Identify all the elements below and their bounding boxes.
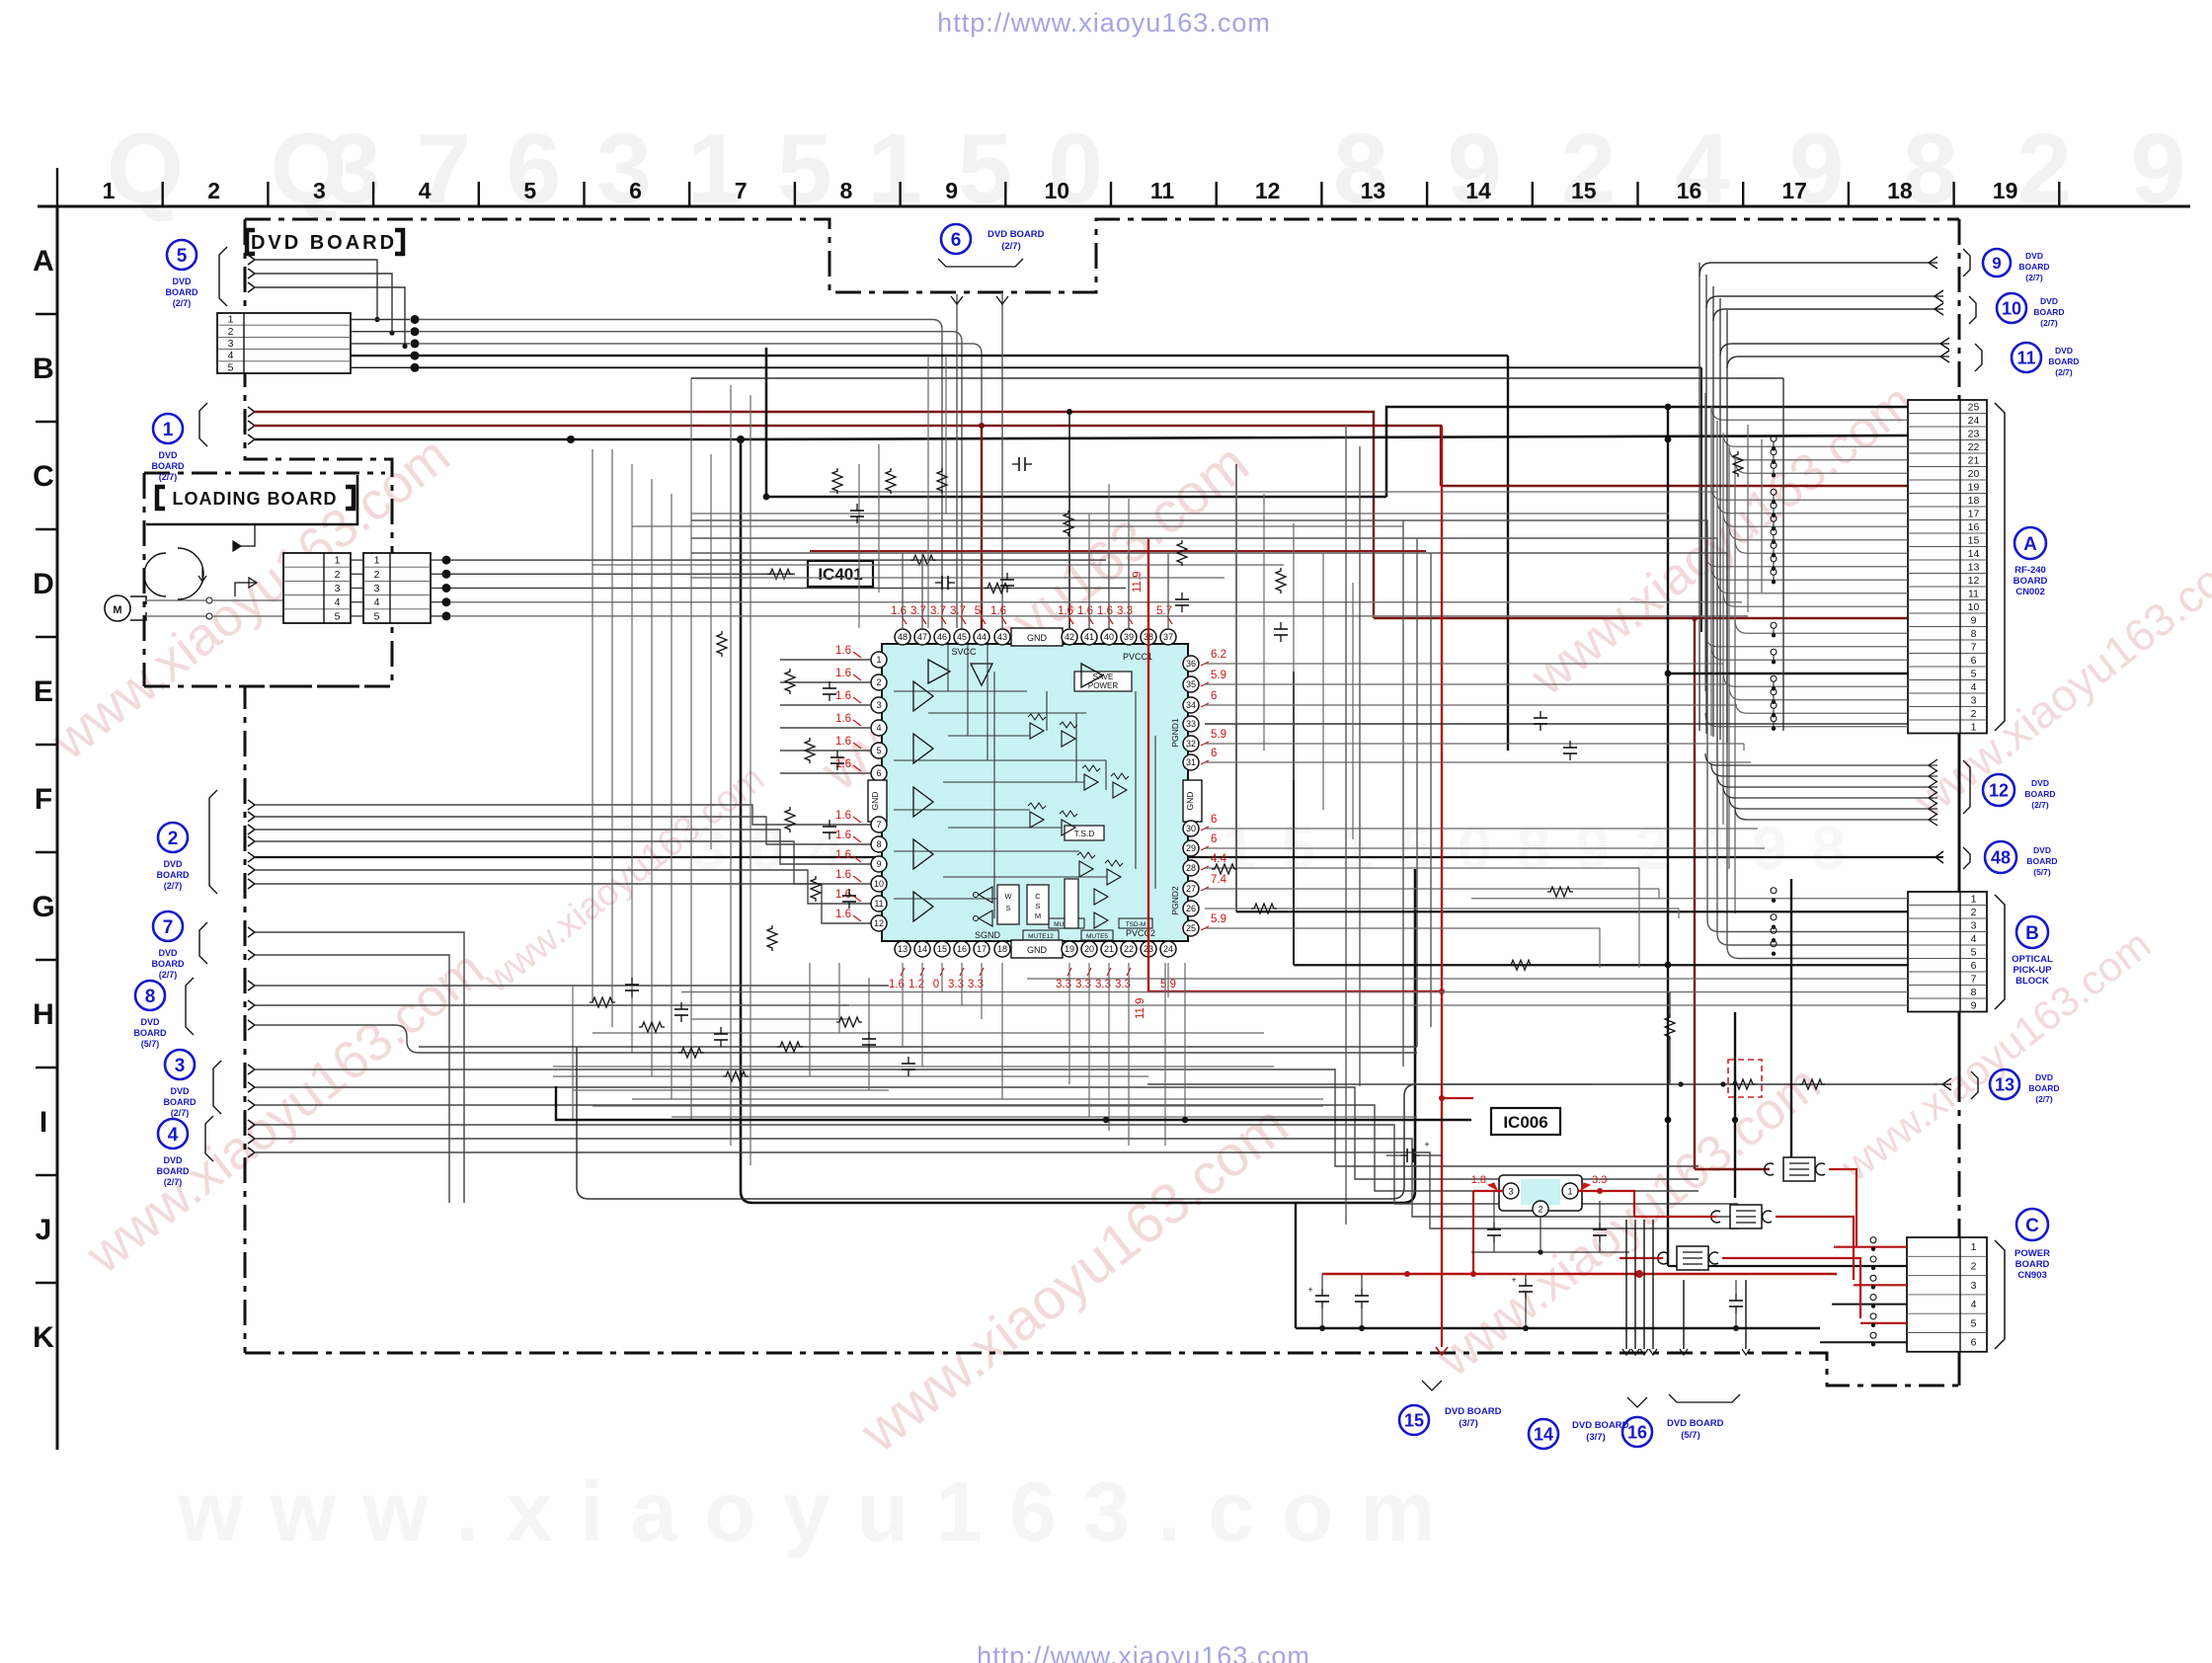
svg-text:BOARD: BOARD (2026, 856, 2057, 866)
svg-text:w w w . x i a o y u 1 6 3 . c: w w w . x i a o y u 1 6 3 . c o m (177, 1465, 1437, 1559)
svg-text:(3/7): (3/7) (1586, 1432, 1606, 1443)
svg-text:3: 3 (1971, 919, 1977, 931)
svg-text:1.6: 1.6 (835, 668, 851, 679)
gray mesh above IC (592, 378, 1783, 578)
svg-text:(2/7): (2/7) (2040, 318, 2058, 328)
svg-text:GND: GND (1185, 792, 1195, 811)
svg-text:T.S.D: T.S.D (1074, 829, 1095, 838)
svg-text:16: 16 (1627, 1422, 1647, 1442)
svg-text:1.6: 1.6 (1058, 605, 1073, 617)
svg-text:(2/7): (2/7) (164, 1177, 183, 1187)
DVD board title (247, 230, 403, 254)
circled 2 label (157, 790, 218, 894)
svg-text:LOADING BOARD: LOADING BOARD (173, 489, 338, 509)
svg-text:BOARD: BOARD (157, 870, 190, 880)
watermark pink diagonal 2 (75, 939, 496, 1286)
svg-text:B: B (2025, 923, 2039, 944)
resistor cluster below IC (590, 978, 915, 1081)
svg-text:8: 8 (876, 839, 881, 849)
svg-text:1.6: 1.6 (835, 830, 851, 841)
svg-text:2: 2 (1971, 708, 1977, 720)
svg-text:6: 6 (951, 230, 962, 251)
svg-text:17: 17 (977, 944, 987, 954)
svg-text:37: 37 (1163, 632, 1173, 642)
connector C label (2014, 1209, 2050, 1281)
svg-text:S: S (1035, 902, 1040, 911)
resistors on loading wires (767, 555, 1010, 593)
svg-text:BOARD: BOARD (152, 959, 185, 969)
svg-text:3.7: 3.7 (930, 605, 946, 617)
svg-text:5: 5 (177, 246, 188, 267)
svg-text:13: 13 (1995, 1074, 2014, 1094)
stubs into IC left pins (780, 660, 871, 773)
svg-text:http://www.xiaoyu163.com: http://www.xiaoyu163.com (937, 8, 1271, 38)
wires into connector A (1705, 406, 1908, 731)
svg-text:7: 7 (876, 820, 881, 830)
svg-text:11: 11 (1150, 178, 1175, 203)
circled 9 (1699, 249, 2050, 282)
IC006 regulator (1471, 1174, 1608, 1217)
svg-text:1.6: 1.6 (835, 690, 851, 702)
svg-text:1.6: 1.6 (1097, 605, 1113, 617)
svg-text:DVD: DVD (2033, 845, 2051, 855)
svg-text:6: 6 (1971, 655, 1977, 667)
svg-text:BOARD: BOARD (134, 1028, 167, 1038)
svg-text:4: 4 (1971, 1299, 1977, 1310)
svg-text:6: 6 (1211, 833, 1217, 845)
svg-text:5: 5 (876, 746, 881, 755)
svg-text:DVD: DVD (2025, 251, 2043, 261)
svg-text:4: 4 (228, 350, 234, 361)
svg-text:18: 18 (997, 944, 1007, 954)
black rail y1345 (1296, 1325, 1820, 1331)
IC401 right pins (1183, 656, 1202, 936)
watermark pink diagonal 9 (476, 757, 772, 1001)
svg-text:G: G (32, 891, 54, 923)
svg-text:5: 5 (1971, 668, 1977, 679)
svg-text:(3/7): (3/7) (1459, 1418, 1478, 1429)
svg-text:PGND2: PGND2 (1170, 886, 1180, 915)
svg-text:7.4: 7.4 (1211, 874, 1227, 886)
svg-text:5.9: 5.9 (1211, 913, 1226, 925)
svg-text:21: 21 (1104, 944, 1114, 954)
svg-text:+: + (1511, 1275, 1516, 1285)
resistor right of IC (1212, 451, 1743, 913)
svg-text:41: 41 (1084, 632, 1094, 642)
svg-text:39: 39 (1124, 632, 1134, 642)
svg-text:42: 42 (1065, 632, 1074, 642)
svg-text:BOARD: BOARD (2028, 1083, 2059, 1093)
circled 48 (1963, 841, 2058, 877)
svg-text:(2/7): (2/7) (2055, 367, 2073, 377)
DVD board outline right (1958, 219, 1961, 400)
svg-text:6: 6 (629, 178, 642, 203)
svg-text:1: 1 (1971, 721, 1977, 733)
svg-text:2: 2 (1971, 1260, 1977, 1272)
circled 1 wire darkred B (248, 421, 1441, 486)
circled 14 (1529, 1220, 1657, 1449)
svg-text:30: 30 (1186, 824, 1196, 833)
svg-text:PGND1: PGND1 (1170, 718, 1180, 748)
svg-text:25: 25 (1186, 923, 1196, 933)
DVD board outline bottom (245, 1353, 1959, 1386)
svg-text:DVD: DVD (2031, 778, 2049, 788)
resistor on B row6 wire (1508, 960, 1534, 970)
svg-text:11: 11 (874, 899, 883, 909)
svg-text:11.9: 11.9 (1135, 997, 1146, 1019)
svg-text:15: 15 (937, 944, 947, 954)
svg-text:GND: GND (1027, 633, 1048, 643)
op-amp IC401 body (882, 644, 1188, 941)
wires into connector B (1236, 888, 1908, 966)
svg-text:23: 23 (1968, 428, 1980, 439)
connector A bracket (1995, 403, 2005, 731)
svg-text:2: 2 (1538, 1205, 1542, 1215)
loading connector CN1 (283, 553, 351, 623)
svg-text:1.6: 1.6 (835, 849, 851, 861)
bright red main vertical (1148, 426, 1473, 1274)
filter unit 2 (1711, 1205, 1772, 1228)
svg-text:11: 11 (2016, 348, 2035, 367)
svg-text:3: 3 (228, 338, 234, 350)
heavy vertical x1814 (1790, 879, 1792, 1157)
IC401 bottom pins (895, 940, 1176, 958)
svg-text:J: J (36, 1214, 52, 1246)
verticals below IC (903, 963, 1168, 1146)
ruler ticks and numbers (57, 168, 2059, 206)
svg-text:40: 40 (1104, 632, 1114, 642)
svg-text:5.9: 5.9 (1211, 729, 1226, 741)
svg-text:21: 21 (1968, 454, 1980, 466)
watermark pink diagonal 7 (1904, 531, 2212, 828)
DVD board outline top (245, 219, 1959, 292)
svg-text:6: 6 (1211, 814, 1217, 826)
svg-text:C: C (2025, 1216, 2039, 1236)
svg-text:DVD: DVD (2040, 296, 2058, 306)
svg-text:8: 8 (1971, 987, 1977, 998)
svg-text:48: 48 (898, 632, 908, 642)
loading connector CN2 (363, 553, 431, 623)
svg-text:22: 22 (1968, 441, 1980, 453)
svg-text:M: M (113, 604, 121, 616)
red cap junction (1386, 1140, 1442, 1162)
svg-text:CN002: CN002 (2015, 587, 2045, 597)
svg-text:16: 16 (1677, 178, 1702, 203)
top-left connector wires right (351, 315, 1701, 751)
svg-text:1: 1 (103, 178, 116, 203)
circled 10 (1706, 290, 2065, 328)
svg-text:B: B (33, 353, 54, 385)
svg-text:DVD: DVD (2035, 1072, 2053, 1082)
circled 1 wire black (248, 435, 1908, 444)
svg-text:19: 19 (1968, 481, 1980, 493)
circled 1 wire darkred A (248, 407, 1374, 618)
circled 4 wires (248, 1120, 1738, 1228)
svg-text:24: 24 (1968, 415, 1980, 427)
circled 15 (1399, 1274, 1502, 1435)
circled 16 (1622, 1280, 1750, 1447)
svg-text:6.2: 6.2 (1211, 649, 1226, 661)
svg-text:5.9: 5.9 (1211, 670, 1226, 681)
svg-text:3: 3 (175, 1056, 186, 1076)
svg-text:5: 5 (374, 610, 380, 622)
svg-text:14: 14 (1465, 178, 1491, 203)
svg-text:2: 2 (228, 326, 234, 338)
svg-text:1.6: 1.6 (1077, 605, 1093, 617)
svg-text:POWER: POWER (2014, 1248, 2050, 1259)
electrolytic caps bottom (1307, 1274, 1743, 1328)
svg-text:C: C (33, 460, 54, 493)
svg-text:9: 9 (876, 859, 881, 869)
wires into connector C (1820, 1237, 1907, 1347)
svg-text:BOARD: BOARD (2015, 1259, 2050, 1270)
op-amp IC401 label (808, 561, 873, 587)
svg-text:IC401: IC401 (818, 565, 862, 584)
svg-text:43: 43 (997, 632, 1007, 642)
svg-text:1.6: 1.6 (835, 645, 851, 657)
svg-text:DVD BOARD: DVD BOARD (251, 232, 397, 254)
svg-text:8: 8 (145, 987, 156, 1007)
svg-text:7: 7 (735, 178, 748, 203)
connector A label (2014, 527, 2048, 597)
svg-text:1: 1 (1971, 1241, 1977, 1253)
IC401 internal amplifiers (913, 660, 1103, 921)
svg-text:22: 22 (1124, 944, 1134, 954)
svg-text:3.7: 3.7 (950, 605, 966, 617)
long grays to B bundle (691, 520, 1908, 959)
svg-text:5: 5 (523, 178, 536, 203)
IC006 caps (1471, 1191, 1629, 1255)
svg-text:1: 1 (1971, 893, 1977, 905)
svg-text:+: + (1424, 1140, 1429, 1149)
svg-text:1.6: 1.6 (835, 869, 851, 881)
svg-text:48: 48 (1991, 847, 2011, 867)
svg-text:DVD BOARD: DVD BOARD (1445, 1406, 1502, 1417)
svg-text:9: 9 (1971, 999, 1977, 1011)
svg-text:17: 17 (1781, 178, 1807, 203)
heavy vertical x1310 (1293, 672, 1295, 965)
svg-text:31: 31 (1186, 757, 1196, 767)
svg-text:1.8: 1.8 (1471, 1174, 1486, 1186)
svg-text:5: 5 (975, 605, 981, 617)
svg-text:19: 19 (1065, 944, 1074, 954)
svg-text:9: 9 (1992, 254, 2001, 273)
svg-text:S: S (1005, 904, 1010, 912)
svg-text:3.7: 3.7 (910, 605, 926, 617)
watermark pink diagonal 5 (1520, 373, 1925, 707)
svg-text:2: 2 (207, 178, 220, 203)
svg-text:MUTE12: MUTE12 (1028, 933, 1054, 940)
svg-text:BOARD: BOARD (164, 1097, 197, 1107)
watermark pink diagonal 4 (848, 1092, 1300, 1465)
connector B label (2012, 916, 2053, 987)
svg-text:3: 3 (374, 583, 380, 594)
darkred drop to pin44 (981, 426, 983, 628)
heavy vertical x1252 (1235, 464, 1237, 912)
svg-text:DVD BOARD: DVD BOARD (987, 229, 1045, 240)
svg-text:33: 33 (1186, 719, 1196, 729)
svg-text:(5/7): (5/7) (1681, 1430, 1700, 1441)
svg-text:32: 32 (1186, 739, 1196, 749)
svg-text:12: 12 (1968, 575, 1980, 587)
svg-text:7: 7 (1971, 973, 1977, 985)
svg-text:C: C (1035, 892, 1041, 901)
svg-text:GND: GND (870, 792, 880, 811)
black vertical x1689 (1665, 404, 1907, 1266)
svg-text:14: 14 (917, 944, 927, 954)
svg-text:SVCC: SVCC (951, 647, 977, 657)
svg-text:7: 7 (163, 917, 174, 938)
extra mesh below IC (553, 963, 1323, 1146)
svg-text:5: 5 (228, 361, 234, 373)
svg-text:BOARD: BOARD (2033, 307, 2064, 317)
svg-text:GND: GND (1027, 945, 1048, 955)
svg-text:SGND: SGND (975, 930, 1001, 940)
darkred vertical right (1695, 618, 1770, 1169)
IC401 internal labels (951, 647, 1180, 940)
svg-text:13: 13 (1968, 561, 1980, 573)
svg-text:16: 16 (957, 944, 967, 954)
svg-text:(2/7): (2/7) (2025, 273, 2043, 282)
connector CN top-left (217, 313, 351, 373)
ruler top line (38, 205, 2190, 208)
svg-text:1: 1 (374, 555, 380, 567)
IC401 red labels bottom (889, 968, 1176, 1019)
darkred to A row19 (1441, 485, 1908, 487)
svg-text:1.6: 1.6 (835, 810, 851, 822)
row letters (32, 245, 57, 1354)
svg-text:12: 12 (874, 918, 884, 928)
IC401 top pins (895, 628, 1176, 646)
svg-text:BOARD: BOARD (152, 461, 185, 471)
connector C power CN903 (1907, 1237, 1987, 1352)
svg-text:OPTICAL: OPTICAL (2012, 954, 2053, 965)
svg-text:BOARD: BOARD (2048, 356, 2079, 366)
IC401 internal wires (894, 644, 1155, 918)
svg-text:2: 2 (374, 569, 380, 581)
connector A RF-240 CN002 (1908, 400, 1987, 734)
circled 2 wires (248, 800, 1943, 923)
svg-text:BOARD: BOARD (2018, 262, 2049, 272)
svg-text:BOARD: BOARD (2024, 789, 2055, 799)
svg-text:10: 10 (2002, 298, 2021, 318)
svg-text:1: 1 (163, 420, 174, 440)
svg-text:BOARD: BOARD (157, 1166, 190, 1176)
svg-text:D: D (33, 568, 54, 600)
svg-text:44: 44 (977, 632, 987, 642)
IC401 red labels right (1201, 649, 1227, 930)
svg-text:6: 6 (1971, 1337, 1977, 1349)
svg-text:2: 2 (168, 829, 179, 849)
svg-text:H: H (33, 998, 54, 1031)
watermark pink diagonal 3 (809, 431, 1260, 803)
loading connector wires right (450, 560, 1748, 616)
gray mesh verticals above IC (573, 356, 1129, 1165)
svg-text:4: 4 (1971, 933, 1977, 945)
loading connector link wires (351, 556, 451, 621)
watermark pink diagonal 6 (1426, 1055, 1831, 1388)
svg-text:34: 34 (1186, 700, 1196, 710)
svg-text:3: 3 (1508, 1187, 1513, 1197)
svg-text:0: 0 (933, 979, 939, 990)
resistor cluster above IC (717, 457, 1288, 657)
svg-text:DVD: DVD (170, 1086, 190, 1096)
svg-text:18: 18 (1887, 178, 1913, 203)
svg-text:3: 3 (1971, 1280, 1977, 1292)
stubs above IC top pins (903, 553, 1168, 629)
circled 12 (1705, 753, 2056, 826)
svg-text:PVCC2: PVCC2 (1126, 928, 1155, 938)
svg-text:1.6: 1.6 (835, 713, 851, 725)
svg-text:MUTE5: MUTE5 (1086, 933, 1108, 940)
circled 5 label (166, 240, 228, 308)
filter unit 1 (1765, 1157, 1825, 1181)
svg-text:(2/7): (2/7) (159, 472, 178, 482)
svg-text:25: 25 (1968, 401, 1980, 413)
svg-text:5: 5 (1971, 946, 1977, 958)
svg-text:4: 4 (1971, 681, 1977, 693)
svg-text:BLOCK: BLOCK (2015, 976, 2049, 987)
svg-text:http://www.xiaoyu163.com: http://www.xiaoyu163.com (977, 1641, 1310, 1663)
svg-text:4: 4 (335, 596, 341, 608)
svg-text:(2/7): (2/7) (1001, 241, 1021, 252)
svg-text:10: 10 (874, 879, 884, 889)
svg-text:DVD BOARD: DVD BOARD (1572, 1420, 1629, 1431)
svg-text:DVD: DVD (163, 1155, 183, 1165)
bundle verticals left of A (1705, 393, 1762, 913)
svg-text:1.6: 1.6 (990, 605, 1006, 617)
svg-text:20: 20 (1968, 468, 1980, 480)
svg-text:+: + (1307, 1285, 1312, 1295)
svg-text:POWER: POWER (1088, 681, 1118, 690)
svg-text:46: 46 (937, 632, 947, 642)
left border line (56, 206, 59, 1450)
circled 6 label (938, 224, 1045, 267)
circled 11 (1720, 338, 2080, 377)
svg-text:DVD BOARD: DVD BOARD (1667, 1418, 1724, 1429)
IC006 wiring red (1473, 1188, 1634, 1274)
heavy black vertical x750 (741, 439, 1415, 1203)
resistor above 13 wire (1665, 992, 1675, 1084)
loading board outline (144, 473, 390, 686)
svg-text:36: 36 (1186, 659, 1196, 669)
svg-text:RF-240: RF-240 (2014, 565, 2046, 576)
watermark pink diagonal 1 (40, 426, 461, 772)
svg-text:14: 14 (1534, 1424, 1553, 1444)
heavy black bus y503 (763, 407, 1908, 500)
svg-text:BOARD: BOARD (166, 287, 198, 297)
black vertical x1312 (1295, 1203, 1297, 1328)
right mesh horizontals (1205, 664, 1908, 928)
heavy black to A row5 (1665, 671, 1908, 677)
svg-text:6: 6 (1211, 690, 1217, 702)
svg-text:1: 1 (1567, 1187, 1572, 1197)
red rail y1290 (1322, 1270, 1837, 1278)
svg-text:2: 2 (335, 569, 341, 581)
svg-text:17: 17 (1968, 508, 1980, 519)
svg-text:1.6: 1.6 (835, 736, 851, 748)
svg-text:12: 12 (1255, 178, 1281, 203)
motor M (105, 595, 283, 621)
black drop to pin42 (1066, 409, 1072, 628)
svg-text:16: 16 (1968, 521, 1980, 533)
svg-text:15: 15 (1571, 178, 1597, 203)
vertical feeders topright (1699, 263, 1727, 743)
svg-text:PICK-UP: PICK-UP (2013, 965, 2052, 976)
heavy vertical x1757 (1732, 1012, 1738, 1198)
svg-text:3: 3 (313, 178, 326, 203)
IC401 red labels top (891, 571, 1172, 624)
